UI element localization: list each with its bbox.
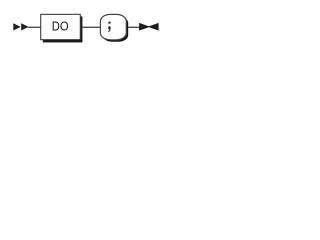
wire box-to-terminal [82, 27, 100, 28]
terminal label ; lower dot with tail [108, 26, 110, 32]
start arrowhead 1 [13, 23, 20, 30]
terminal pill [100, 14, 126, 39]
end arrowhead right [139, 23, 150, 31]
keyword box shadow [43, 16, 83, 42]
end arrowhead left [148, 23, 159, 31]
terminal label ; upper dot [108, 22, 110, 24]
keyword box DO [41, 14, 81, 39]
terminal pill shadow [102, 16, 128, 42]
wire start-to-box [28, 27, 41, 28]
wire terminal-to-end [128, 27, 139, 28]
svg-text:DO: DO [52, 20, 69, 34]
start arrowhead 2 [21, 23, 28, 30]
